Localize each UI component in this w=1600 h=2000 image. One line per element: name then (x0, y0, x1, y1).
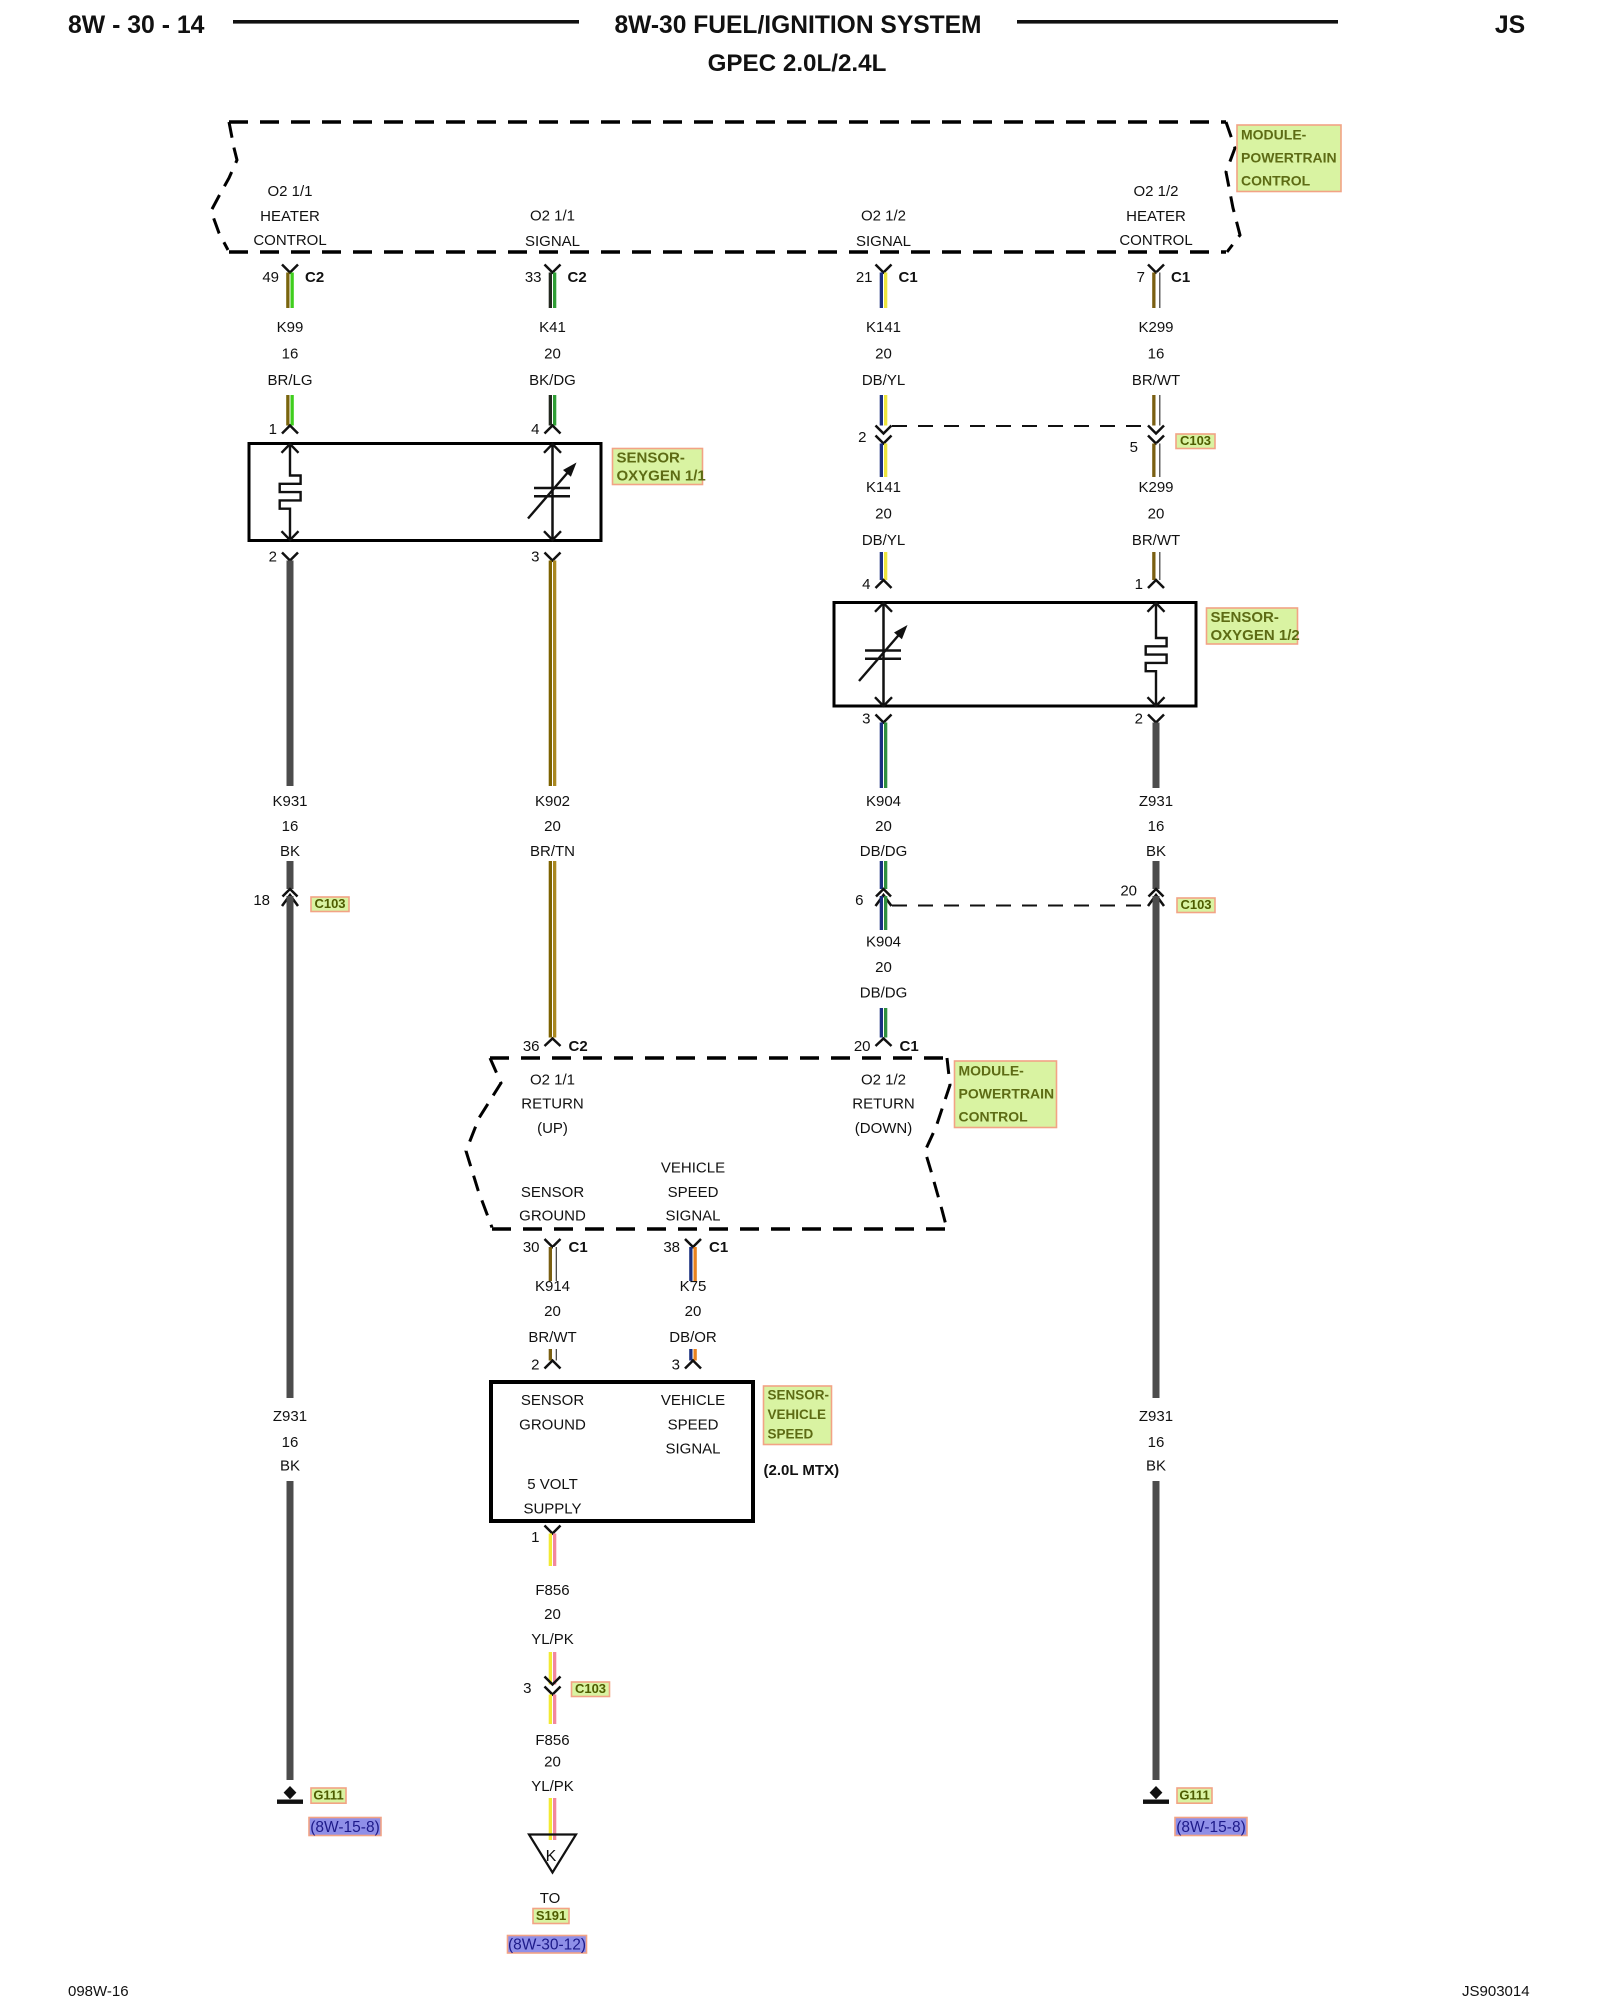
wire K904 segment to PCM pin 20 (880, 1008, 888, 1038)
svg-text:DB/YL: DB/YL (862, 532, 905, 549)
svg-text:K299: K299 (1138, 319, 1173, 336)
module PCM box 2 top edge (490, 1056, 947, 1060)
sensor oxygen 1/2 pin 1 (1135, 576, 1164, 593)
svg-text:G111: G111 (313, 1788, 343, 1803)
svg-text:SIGNAL: SIGNAL (665, 1208, 720, 1225)
svg-text:POWERTRAIN: POWERTRAIN (959, 1086, 1055, 1102)
svg-text:BR/WT: BR/WT (1132, 372, 1180, 389)
PCM pin function O2 1/1 RETURN (UP) (521, 1072, 584, 1138)
sensor oxygen 1/2 pin 2 (1135, 711, 1164, 728)
svg-text:C103: C103 (1180, 897, 1211, 912)
svg-text:K99: K99 (277, 319, 304, 336)
svg-text:1: 1 (1135, 576, 1143, 593)
svg-text:RETURN: RETURN (521, 1096, 584, 1113)
wire Z931 long segment to ground (left) (287, 896, 294, 1398)
svg-text:20: 20 (875, 346, 892, 363)
label G111 (right) (1177, 1788, 1212, 1804)
svg-text:K299: K299 (1138, 479, 1173, 496)
PCM connector pin 21 C1 (856, 265, 918, 287)
svg-text:CONTROL: CONTROL (1119, 232, 1192, 249)
wire label K904 20 DB/DG (860, 793, 908, 860)
wire label K299 16 BR/WT (1132, 319, 1180, 389)
ground symbol G111 (left) (277, 1786, 303, 1804)
svg-text:K931: K931 (272, 793, 307, 810)
sensor oxygen 1/1 heater element (280, 444, 301, 540)
svg-text:8W - 30 - 14: 8W - 30 - 14 (68, 12, 205, 39)
wire K141 segment below C103 (880, 444, 888, 478)
svg-text:16: 16 (1148, 346, 1165, 363)
svg-text:21: 21 (856, 269, 873, 286)
PCM connector pin 49 C2 (262, 265, 324, 287)
wire K41 segment to sensor pin 4 (549, 395, 557, 426)
svg-text:(8W-15-8): (8W-15-8) (310, 1819, 379, 1836)
svg-text:2: 2 (858, 429, 866, 446)
wire F856 segment from VSS pin 1 (549, 1534, 557, 1567)
sensor oxygen 1/1 pin 2 (269, 549, 298, 566)
svg-text:30: 30 (523, 1239, 540, 1256)
label SENSOR-OXYGEN 1/1 (613, 449, 706, 485)
PCM pin function O2 1/1 HEATER CONTROL (253, 183, 326, 249)
svg-text:S191: S191 (536, 1908, 566, 1923)
inline connector C103 pin 20 (1148, 889, 1164, 906)
svg-text:C1: C1 (900, 1038, 919, 1055)
inline connector C103 pin 6 (876, 889, 892, 906)
PCM connector pin 7 C1 (1137, 265, 1191, 287)
module PCM box top edge (229, 120, 1226, 124)
wire K904 segment below C103 (880, 896, 888, 930)
svg-text:JS: JS (1495, 12, 1525, 39)
svg-text:DB/YL: DB/YL (862, 372, 905, 389)
svg-text:C1: C1 (569, 1239, 588, 1256)
wire label K914 20 BR/WT (528, 1278, 576, 1346)
PCM pin function O2 1/2 RETURN (DOWN) (852, 1072, 915, 1138)
VSS text VEHICLE SPEED SIGNAL (661, 1392, 725, 1458)
PCM pin function O2 1/2 SIGNAL (856, 208, 911, 251)
label (8W-15-8) (left) (309, 1818, 381, 1837)
VSS text SENSOR GROUND (519, 1392, 586, 1434)
svg-text:O2 1/1: O2 1/1 (267, 183, 312, 200)
wire Z931 lower segment (right) (1153, 1481, 1160, 1780)
wire label F856 20 YL/PK (lower) (531, 1732, 574, 1795)
svg-text:5: 5 (1130, 439, 1138, 456)
svg-text:GROUND: GROUND (519, 1417, 586, 1434)
svg-text:K41: K41 (539, 319, 566, 336)
svg-text:1: 1 (531, 1529, 539, 1546)
module PCM box right jagged edge (1226, 122, 1240, 252)
sensor oxygen 1/2 sensing element (859, 603, 908, 706)
svg-text:38: 38 (663, 1239, 680, 1256)
sensor oxygen 1/2 pin 3 (862, 711, 891, 728)
module PCM box 2 bottom edge (492, 1227, 947, 1231)
wire Z931 lower segment (left) (287, 1481, 294, 1780)
svg-text:O2 1/1: O2 1/1 (530, 1072, 575, 1089)
svg-text:K: K (546, 1848, 557, 1865)
off-page splice triangle K (529, 1835, 576, 1873)
svg-text:SPEED: SPEED (668, 1417, 719, 1434)
wire Z931 segment from sensor pin 2 (1153, 723, 1160, 789)
header rule right (1017, 20, 1338, 24)
module PCM box 2 left jagged edge (466, 1058, 501, 1228)
label S191 (533, 1908, 569, 1924)
svg-text:SPEED: SPEED (768, 1427, 814, 1442)
PCM connector pin 33 C2 (525, 265, 587, 287)
svg-text:2: 2 (1135, 711, 1143, 728)
wire K299 segment below C103 (1152, 444, 1160, 478)
svg-text:K75: K75 (680, 1278, 707, 1295)
svg-text:4: 4 (531, 421, 539, 438)
wire K141 segment to connector C103 (880, 395, 888, 426)
svg-text:CONTROL: CONTROL (959, 1109, 1029, 1125)
svg-text:POWERTRAIN: POWERTRAIN (1241, 150, 1337, 166)
svg-text:K902: K902 (535, 793, 570, 810)
svg-text:BR/LG: BR/LG (267, 372, 312, 389)
svg-text:SIGNAL: SIGNAL (525, 233, 580, 250)
svg-text:Z931: Z931 (1139, 1408, 1173, 1425)
svg-text:Z931: Z931 (273, 1408, 307, 1425)
svg-text:MODULE-: MODULE- (959, 1063, 1025, 1079)
svg-text:K914: K914 (535, 1278, 570, 1295)
svg-text:O2 1/2: O2 1/2 (861, 1072, 906, 1089)
vehicle speed sensor pin 3 (672, 1357, 701, 1374)
svg-text:20: 20 (544, 818, 561, 835)
svg-text:BK: BK (280, 1458, 300, 1475)
wire label K141 20 DB/YL (lower) (862, 479, 905, 549)
svg-text:49: 49 (262, 269, 279, 286)
vehicle speed sensor pin 2 (531, 1357, 560, 1374)
svg-text:VEHICLE: VEHICLE (661, 1392, 725, 1409)
PCM connector pin 36 C2 (523, 1038, 588, 1055)
wire F856 segment below C103 (549, 1695, 557, 1725)
sensor oxygen 1/2 heater element (1146, 603, 1167, 706)
wire label K41 20 BK/DG (529, 319, 576, 389)
svg-text:SIGNAL: SIGNAL (665, 1441, 720, 1458)
sensor oxygen 1/1 sensing element (528, 444, 577, 540)
svg-text:20: 20 (685, 1303, 702, 1320)
PCM pin function SENSOR GROUND (519, 1184, 586, 1225)
wire K914 segment to VSS pin 2 (549, 1349, 557, 1361)
svg-text:SENSOR-: SENSOR- (617, 450, 685, 467)
svg-text:SPEED: SPEED (668, 1184, 719, 1201)
svg-text:YL/PK: YL/PK (531, 1778, 574, 1795)
wire K75 segment to VSS pin 3 (689, 1349, 697, 1361)
svg-text:MODULE-: MODULE- (1241, 127, 1307, 143)
svg-text:O2 1/2: O2 1/2 (1133, 183, 1178, 200)
svg-text:BR/TN: BR/TN (530, 843, 575, 860)
svg-text:C2: C2 (305, 269, 324, 286)
wire K75 segment from PCM pin 38 (689, 1247, 697, 1281)
svg-text:(8W-30-12): (8W-30-12) (508, 1937, 586, 1954)
wire label Z931 16 BK (right) (1139, 1408, 1173, 1475)
svg-text:C103: C103 (1180, 433, 1211, 448)
svg-text:CONTROL: CONTROL (253, 232, 326, 249)
svg-text:BR/WT: BR/WT (1132, 532, 1180, 549)
svg-text:16: 16 (1148, 1434, 1165, 1451)
wire label K99 16 BR/LG (267, 319, 312, 389)
svg-text:DB/DG: DB/DG (860, 985, 908, 1002)
svg-text:Z931: Z931 (1139, 793, 1173, 810)
wire K904 segment from sensor pin 3 (880, 723, 888, 789)
svg-text:HEATER: HEATER (1126, 208, 1186, 225)
svg-text:3: 3 (531, 549, 539, 566)
svg-text:TO: TO (540, 1890, 561, 1907)
svg-text:CONTROL: CONTROL (1241, 173, 1311, 189)
svg-text:BR/WT: BR/WT (528, 1329, 576, 1346)
svg-text:SENSOR: SENSOR (521, 1392, 585, 1409)
svg-text:SIGNAL: SIGNAL (856, 233, 911, 250)
wire label K299 20 BR/WT (lower) (1132, 479, 1180, 549)
wire K299 segment from PCM pin 7 (1152, 273, 1160, 309)
svg-text:RETURN: RETURN (852, 1096, 915, 1113)
label C103 (upper) (1176, 433, 1215, 449)
label MODULE-POWERTRAIN CONTROL (middle) (955, 1061, 1057, 1128)
svg-text:K904: K904 (866, 934, 901, 951)
wire label K902 20 BR/TN (530, 793, 575, 860)
label MODULE-POWERTRAIN CONTROL (top) (1237, 125, 1341, 192)
svg-text:OXYGEN 1/1: OXYGEN 1/1 (617, 468, 706, 485)
sensor oxygen 1/2 pin 4 (862, 576, 891, 593)
svg-text:20: 20 (875, 959, 892, 976)
wire K914 segment from PCM pin 30 (549, 1247, 557, 1281)
sensor oxygen 1/1 pin 3 (531, 549, 560, 566)
ground symbol G111 (right) (1143, 1786, 1169, 1804)
svg-text:C1: C1 (899, 269, 918, 286)
svg-text:C2: C2 (569, 1038, 588, 1055)
module PCM box left jagged edge (211, 122, 237, 250)
PCM pin function VEHICLE SPEED SIGNAL (661, 1160, 725, 1225)
svg-text:098W-16: 098W-16 (68, 1983, 129, 2000)
wire K99 segment from PCM pin 49 (286, 273, 294, 309)
svg-text:DB/DG: DB/DG (860, 843, 908, 860)
svg-text:YL/PK: YL/PK (531, 1631, 574, 1648)
svg-text:3: 3 (523, 1680, 531, 1697)
svg-text:6: 6 (855, 892, 863, 909)
wire K931 segment above C103 (287, 861, 294, 889)
svg-text:2: 2 (531, 1357, 539, 1374)
wire K299 segment to connector C103 (1152, 395, 1160, 426)
svg-text:18: 18 (253, 892, 270, 909)
svg-text:O2 1/2: O2 1/2 (861, 208, 906, 225)
svg-text:C1: C1 (709, 1239, 728, 1256)
svg-text:16: 16 (282, 346, 299, 363)
svg-text:SENSOR-: SENSOR- (768, 1388, 830, 1403)
svg-text:4: 4 (862, 576, 870, 593)
svg-text:DB/OR: DB/OR (669, 1329, 717, 1346)
svg-text:20: 20 (544, 1606, 561, 1623)
svg-text:3: 3 (672, 1357, 680, 1374)
svg-text:GPEC 2.0L/2.4L: GPEC 2.0L/2.4L (708, 50, 887, 77)
svg-text:3: 3 (862, 711, 870, 728)
svg-text:K141: K141 (866, 479, 901, 496)
wire K41 segment from PCM pin 33 (549, 273, 557, 309)
VSS text 5 VOLT SUPPLY (523, 1476, 581, 1518)
wire K904 segment above C103 (880, 861, 888, 889)
label (8W-15-8) (right) (1175, 1818, 1247, 1837)
svg-text:BK: BK (280, 843, 300, 860)
svg-text:G111: G111 (1179, 1788, 1209, 1803)
svg-text:F856: F856 (535, 1732, 569, 1749)
svg-text:7: 7 (1137, 269, 1145, 286)
dashed harness link C103 pins 6-20 (892, 905, 1147, 907)
svg-text:(UP): (UP) (537, 1120, 568, 1137)
svg-text:36: 36 (523, 1038, 540, 1055)
wire Z931 long segment to ground (right) (1153, 896, 1160, 1398)
svg-text:K904: K904 (866, 793, 901, 810)
wire K299 segment to sensor pin 1 (1152, 552, 1160, 580)
svg-text:16: 16 (282, 1434, 299, 1451)
svg-text:BK: BK (1146, 1458, 1166, 1475)
inline connector C103 pin 2 (876, 426, 892, 444)
svg-text:VEHICLE: VEHICLE (768, 1407, 827, 1422)
svg-text:GROUND: GROUND (519, 1208, 586, 1225)
module PCM box 2 right jagged edge (925, 1058, 950, 1229)
wire Z931 segment above C103 (1153, 861, 1160, 889)
svg-text:JS903014: JS903014 (1462, 1983, 1530, 2000)
wire K902 segment to PCM pin 36 (549, 861, 557, 1038)
wire K902 segment from sensor pin 3 (549, 561, 557, 787)
label C103 (right lower) (1177, 897, 1215, 913)
inline connector C103 pin 3 (545, 1677, 561, 1695)
svg-text:SENSOR: SENSOR (521, 1184, 585, 1201)
svg-text:20: 20 (875, 818, 892, 835)
svg-text:SUPPLY: SUPPLY (523, 1501, 581, 1518)
svg-text:C103: C103 (575, 1681, 606, 1696)
wire label K904 20 DB/DG (lower) (860, 934, 908, 1002)
wire K931 segment from sensor pin 2 (287, 561, 294, 787)
svg-text:1: 1 (269, 421, 277, 438)
label C103 (bottom) (572, 1681, 610, 1697)
PCM connector pin 20 C1 (854, 1038, 919, 1055)
svg-text:VEHICLE: VEHICLE (661, 1160, 725, 1177)
sensor oxygen 1/2 box (834, 603, 1196, 707)
wire label Z931 16 BK (1139, 793, 1173, 860)
wire K141 segment to sensor pin 4 (880, 552, 888, 580)
svg-text:C103: C103 (314, 896, 345, 911)
svg-text:C2: C2 (568, 269, 587, 286)
header rule left (233, 20, 579, 24)
PCM connector pin 30 C1 (523, 1239, 588, 1256)
svg-text:20: 20 (544, 1754, 561, 1771)
PCM pin function O2 1/2 HEATER CONTROL (1119, 183, 1192, 249)
vehicle speed sensor pin 1 (531, 1526, 560, 1547)
svg-text:HEATER: HEATER (260, 208, 320, 225)
label SENSOR-OXYGEN 1/2 (1207, 608, 1300, 644)
inline connector C103 pin 18 (282, 889, 298, 906)
inline connector C103 pin 5 (1148, 426, 1164, 444)
PCM connector pin 38 C1 (663, 1239, 728, 1256)
svg-text:2: 2 (269, 549, 277, 566)
wire label K931 16 BK (272, 793, 307, 860)
wire F856 segment to C103 (549, 1652, 557, 1685)
wire label F856 20 YL/PK (531, 1582, 574, 1648)
label G111 (left) (311, 1788, 346, 1804)
svg-text:8W-30 FUEL/IGNITION SYSTEM: 8W-30 FUEL/IGNITION SYSTEM (614, 12, 981, 39)
svg-text:16: 16 (282, 818, 299, 835)
dashed harness link C103 pins 2-5 (892, 425, 1147, 427)
svg-text:SENSOR-: SENSOR- (1211, 609, 1279, 626)
wire K99 segment to sensor pin 1 (286, 395, 294, 426)
svg-text:20: 20 (544, 1303, 561, 1320)
svg-text:F856: F856 (535, 1582, 569, 1599)
svg-text:20: 20 (875, 506, 892, 523)
svg-text:16: 16 (1148, 818, 1165, 835)
svg-text:(8W-15-8): (8W-15-8) (1176, 1819, 1245, 1836)
wire label K75 20 DB/OR (669, 1278, 717, 1346)
module PCM box bottom edge (229, 250, 1226, 254)
PCM pin function O2 1/1 SIGNAL (525, 208, 580, 251)
sensor oxygen 1/1 box (249, 444, 601, 541)
wire K141 segment from PCM pin 21 (880, 273, 888, 309)
sensor oxygen 1/1 pin 1 (269, 421, 298, 438)
label C103 (left) (311, 896, 349, 912)
label (8W-30-12) (508, 1936, 587, 1954)
wire label K141 20 DB/YL (862, 319, 905, 389)
svg-text:BK/DG: BK/DG (529, 372, 576, 389)
svg-text:K141: K141 (866, 319, 901, 336)
label SENSOR-VEHICLE SPEED (764, 1386, 832, 1445)
svg-text:BK: BK (1146, 843, 1166, 860)
wire label Z931 16 BK (left) (273, 1408, 307, 1475)
svg-text:O2 1/1: O2 1/1 (530, 208, 575, 225)
sensor oxygen 1/1 pin 4 (531, 421, 560, 438)
svg-text:OXYGEN 1/2: OXYGEN 1/2 (1211, 627, 1300, 644)
svg-text:20: 20 (1120, 883, 1137, 900)
svg-text:33: 33 (525, 269, 542, 286)
svg-text:(DOWN): (DOWN) (855, 1120, 912, 1137)
svg-text:20: 20 (544, 346, 561, 363)
svg-text:20: 20 (1148, 506, 1165, 523)
svg-text:(2.0L MTX): (2.0L MTX) (764, 1462, 840, 1479)
svg-text:C1: C1 (1171, 269, 1190, 286)
sensor vehicle speed box (491, 1382, 753, 1521)
wire F856 segment to splice (549, 1798, 557, 1840)
svg-text:5 VOLT: 5 VOLT (527, 1476, 578, 1493)
svg-text:20: 20 (854, 1038, 871, 1055)
